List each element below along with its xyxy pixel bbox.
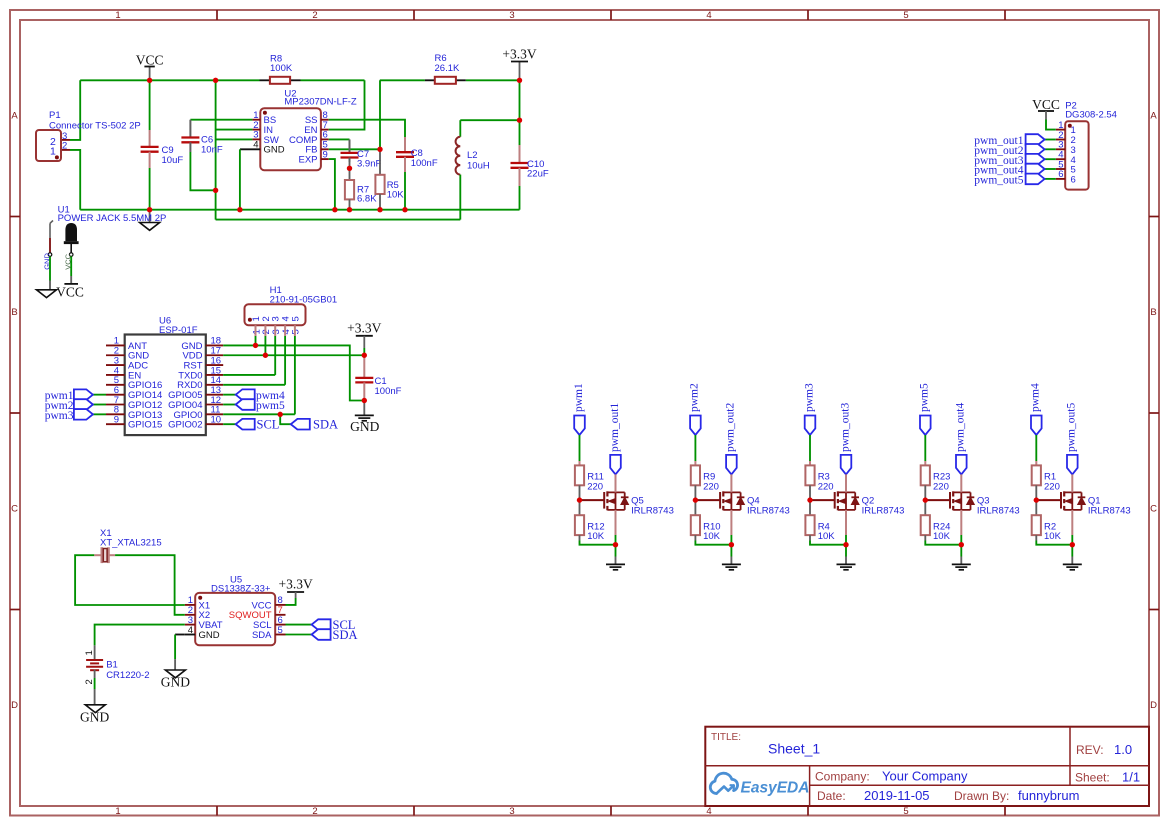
P2 pin 5	[1056, 168, 1065, 170]
svg-text:+3.3V: +3.3V	[502, 47, 536, 62]
junction	[807, 497, 812, 502]
U2 pin 1 BS	[252, 119, 260, 121]
svg-text:pwm_out4: pwm_out4	[955, 403, 967, 452]
wire drain Q1	[1071, 474, 1073, 492]
U6 pin 9 GPIO15	[106, 423, 125, 425]
P2 pin 2	[1056, 139, 1065, 141]
wire gate node Q2	[809, 485, 811, 515]
wire H1 pin3 to TXD0	[274, 336, 276, 375]
svg-text:2: 2	[62, 140, 67, 151]
U6 pin 18 GND	[206, 344, 223, 346]
wire source Q3 to ground	[960, 510, 962, 535]
svg-text:IRLR8743: IRLR8743	[631, 506, 674, 517]
wire drain Q5	[615, 474, 617, 492]
junction	[843, 542, 848, 547]
wire U2 GND pin4 down to bus	[239, 149, 241, 209]
wire GPIO0 pin11 run	[223, 413, 295, 415]
U6 pin 7 GPIO12	[106, 404, 125, 406]
svg-text:5: 5	[903, 10, 908, 21]
svg-text:C: C	[11, 504, 18, 515]
svg-text:6.8K: 6.8K	[357, 194, 377, 205]
svg-text:CR1220-2: CR1220-2	[106, 670, 149, 681]
net port SCL at U5	[286, 624, 312, 626]
svg-text:22uF: 22uF	[527, 169, 549, 180]
U2 pin 6 COMP	[321, 138, 329, 140]
junction	[263, 353, 268, 358]
U2 pin 2 IN	[252, 129, 260, 131]
svg-text:GND: GND	[161, 675, 190, 690]
svg-text:Sheet:: Sheet:	[1075, 771, 1110, 785]
junction	[377, 147, 382, 152]
wire FB top segment	[380, 79, 425, 81]
U5 pin 3 VBAT	[185, 624, 195, 626]
U2 pin 8 SS	[321, 119, 329, 121]
svg-text:5: 5	[290, 316, 301, 321]
svg-text:pwm5: pwm5	[919, 383, 931, 412]
svg-text:pwm3: pwm3	[45, 410, 74, 422]
resistor R9 220	[691, 465, 700, 485]
net port SDA at U6	[291, 419, 310, 430]
wire L2 top to output node	[460, 119, 519, 121]
wire H1 pin2 to VDD net	[264, 336, 266, 355]
svg-text:3.9nF: 3.9nF	[357, 159, 381, 170]
svg-text:10K: 10K	[703, 531, 721, 542]
svg-text:1: 1	[84, 650, 95, 655]
Q2 body diode	[854, 492, 856, 510]
P2 pin 1	[1056, 129, 1065, 131]
svg-text:6: 6	[1071, 175, 1076, 186]
svg-text:pwm_out3: pwm_out3	[839, 403, 851, 452]
connector P1	[36, 130, 61, 161]
wire drain Q2	[845, 474, 847, 492]
svg-text:B1: B1	[106, 660, 118, 671]
svg-text:SDA: SDA	[313, 418, 338, 432]
svg-text:pwm3: pwm3	[803, 383, 815, 412]
svg-text:26.1K: 26.1K	[435, 63, 460, 74]
junction	[959, 542, 964, 547]
svg-text:10K: 10K	[1044, 531, 1062, 542]
svg-text:EasyEDA: EasyEDA	[741, 780, 810, 797]
svg-text:Your Company: Your Company	[882, 769, 968, 784]
resistor R10 10K	[691, 515, 700, 535]
wire U2 EN pin7 to rail	[329, 80, 365, 129]
ground at Q1	[1063, 563, 1082, 565]
svg-text:POWER JACK 5.5MM 2P: POWER JACK 5.5MM 2P	[58, 213, 167, 224]
wire source Q1 to ground	[1071, 510, 1073, 535]
svg-text:4: 4	[706, 10, 711, 21]
net port pwm_out5 at P2	[1045, 178, 1056, 180]
junction	[729, 542, 734, 547]
wire source Q5 to ground	[615, 510, 617, 535]
resistor R3 220	[805, 465, 814, 485]
svg-text:IRLR8743: IRLR8743	[747, 506, 790, 517]
U5 pin 2 X2	[185, 614, 195, 616]
svg-text:10K: 10K	[933, 531, 951, 542]
junction	[147, 78, 152, 83]
svg-text:funnybrum: funnybrum	[1018, 788, 1079, 803]
capacitor C8	[404, 137, 406, 152]
wire VCC to P2 pin1	[1046, 120, 1056, 130]
svg-text:1: 1	[115, 10, 120, 21]
U1 pin 1 sleeve	[49, 238, 51, 253]
svg-text:B: B	[11, 307, 17, 318]
wire X1 pin1 loop to U5 X1	[75, 555, 185, 605]
U6 pin 5 GPIO16	[106, 384, 125, 386]
resistor R24 10K	[921, 515, 930, 535]
svg-text:6: 6	[1058, 169, 1063, 180]
transistor Q2 IRLR8743	[810, 499, 835, 501]
svg-text:GND: GND	[80, 710, 109, 725]
svg-text:MP2307DN-LF-Z: MP2307DN-LF-Z	[284, 96, 357, 107]
svg-text:3: 3	[509, 806, 514, 817]
wire TXD0 pin15 run	[223, 374, 275, 376]
junction	[332, 207, 337, 212]
svg-text:pwm2: pwm2	[689, 383, 701, 412]
title block border	[705, 727, 1149, 806]
net port pwm_out2 at P2	[1045, 148, 1056, 150]
junction	[347, 166, 352, 171]
net port pwm2 at U6	[93, 404, 106, 406]
net port pwm5 at U6	[223, 404, 236, 406]
wire R10 to source node	[694, 535, 696, 540]
Q3 body diode	[970, 492, 972, 510]
capacitor C6	[190, 119, 252, 121]
capacitor C1	[363, 355, 365, 378]
P2 pin 3	[1056, 148, 1065, 150]
svg-text:Date:: Date:	[817, 789, 846, 803]
svg-text:2: 2	[312, 806, 317, 817]
svg-text:A: A	[1150, 111, 1157, 122]
ground at Q5	[606, 563, 625, 565]
svg-text:220: 220	[818, 481, 834, 492]
svg-text:Connector TS-502 2P: Connector TS-502 2P	[49, 121, 141, 132]
svg-text:220: 220	[933, 481, 949, 492]
svg-text:Drawn By:: Drawn By:	[954, 789, 1009, 803]
net port pwm4 at U6	[223, 394, 236, 396]
svg-text:2: 2	[312, 10, 317, 21]
junction	[517, 118, 522, 123]
svg-text:GND: GND	[264, 145, 285, 156]
transistor Q4 IRLR8743	[695, 499, 720, 501]
svg-text:+3.3V: +3.3V	[278, 577, 312, 592]
ground at Q4	[722, 563, 741, 565]
svg-text:1: 1	[50, 146, 56, 158]
wire SW bottom run to L2	[216, 219, 461, 221]
net port pwm3 at U6	[93, 413, 106, 415]
U2 pin 7 EN	[321, 129, 329, 131]
svg-text:pwm_out5: pwm_out5	[1066, 403, 1078, 452]
svg-text:pwm_out5: pwm_out5	[974, 175, 1023, 187]
U6 pin 13 GPIO05	[206, 394, 223, 396]
U5 pin 4 GND	[185, 634, 195, 636]
EasyEDA logo	[710, 773, 737, 793]
ground at Q2	[837, 563, 856, 565]
svg-text:pwm4: pwm4	[1030, 383, 1042, 412]
U6 pin 16 RST	[206, 364, 223, 366]
svg-text:10K: 10K	[818, 531, 836, 542]
wire gate node Q3	[924, 485, 926, 515]
junction	[1034, 497, 1039, 502]
wire pwm2 to R9	[694, 435, 696, 461]
ruler tick marks	[216, 10, 218, 20]
wire FB vertical to R6 segment	[379, 80, 381, 149]
svg-text:DG308-2.54: DG308-2.54	[1065, 110, 1117, 121]
junction	[693, 497, 698, 502]
resistor R4 10K	[805, 515, 814, 535]
svg-text:Company:: Company:	[815, 770, 870, 784]
wire gate node Q1	[1035, 485, 1037, 515]
wire R12 to source node	[579, 535, 581, 540]
net port pwm_out3 at P2	[1045, 158, 1056, 160]
Q4 body diode	[740, 492, 742, 510]
battery B1 CR1220-2	[94, 645, 96, 659]
U6 pin 4 EN	[106, 374, 125, 376]
net port pwm_out1 at P2	[1045, 139, 1056, 141]
wire gate node Q5	[579, 485, 581, 515]
svg-text:+3.3V: +3.3V	[347, 320, 381, 335]
wire H1 pin1 to GND net	[255, 336, 257, 345]
svg-text:IRLR8743: IRLR8743	[977, 506, 1020, 517]
wire U2 FB pin5	[329, 148, 380, 150]
title block inner lines	[705, 765, 1149, 767]
wire source Q2 to ground	[845, 510, 847, 535]
wire source Q4 to ground	[730, 510, 732, 535]
U5 pin 7 SQWOUT	[275, 614, 285, 616]
svg-text:4: 4	[253, 140, 258, 151]
svg-text:IRLR8743: IRLR8743	[1088, 506, 1131, 517]
U2 pin 4 GND	[240, 148, 260, 150]
capacitor C9	[149, 80, 151, 130]
U6 pin 17 VDD	[206, 354, 223, 356]
resistor R1 220	[1032, 465, 1041, 485]
ground GND below B1	[85, 705, 105, 713]
U6 pin 14 RXD0	[206, 384, 223, 386]
resistor R12 10K	[575, 515, 584, 535]
U2 pin 5 FB	[321, 148, 329, 150]
wire drain Q4	[730, 474, 732, 492]
wire pwm3 to R3	[809, 435, 811, 461]
wire U2 pin3 SW stub wire	[216, 138, 253, 140]
svg-text:10uH: 10uH	[467, 161, 490, 172]
ground at Q3	[952, 563, 971, 565]
capacitor C7	[349, 139, 351, 153]
svg-text:ESP-01F: ESP-01F	[159, 325, 198, 336]
svg-text:VCC: VCC	[136, 52, 164, 67]
ground GND below U5	[165, 670, 185, 678]
junction	[237, 207, 242, 212]
U1 pin1 wire to ground	[49, 256, 51, 280]
svg-text:VCC: VCC	[56, 284, 84, 299]
wire U2 COMP pin6 to C7	[329, 138, 350, 140]
net flag VCC at rail	[149, 67, 151, 81]
transistor Q5 IRLR8743	[580, 499, 605, 501]
svg-text:A: A	[11, 111, 18, 122]
resistor R23 220	[921, 465, 930, 485]
P2 pin 6	[1056, 178, 1065, 180]
wire R2 to source node	[1035, 535, 1037, 540]
connector P2 DG308-2.54	[1065, 121, 1088, 189]
svg-text:9: 9	[114, 415, 119, 426]
svg-text:pwm_out1: pwm_out1	[609, 403, 621, 452]
wire H1 pin4 to RXD0	[284, 336, 286, 385]
wire X1 pin2 to U5 X2	[115, 555, 185, 615]
U5 pin 6 SCL	[275, 624, 285, 626]
wire U5 GND pin4 to ground	[175, 634, 185, 636]
wire pwm1 to R11	[579, 435, 581, 461]
capacitor C10	[519, 120, 521, 145]
svg-text:pwm5: pwm5	[256, 400, 285, 412]
junction	[1070, 542, 1075, 547]
junction	[613, 542, 618, 547]
wire U2 SS pin8 to C8	[329, 120, 405, 137]
wire IN/SW vertical	[215, 80, 217, 219]
resistor R7	[349, 162, 351, 180]
resistor R11 220	[575, 465, 584, 485]
svg-text:5: 5	[903, 806, 908, 817]
svg-text:4: 4	[188, 625, 193, 636]
svg-text:5: 5	[291, 329, 302, 334]
wire U2 pin2 IN stub wire	[216, 129, 253, 131]
wire U2 EXP pin9 to bus	[329, 159, 335, 210]
svg-text:220: 220	[703, 481, 719, 492]
U6 pin 2 GND	[106, 354, 125, 356]
svg-text:C: C	[1150, 504, 1157, 515]
svg-text:9: 9	[323, 149, 328, 160]
svg-text:GPIO02: GPIO02	[168, 420, 202, 431]
net port SCL at U6	[223, 423, 236, 425]
svg-text:GPIO15: GPIO15	[128, 420, 162, 431]
svg-text:10: 10	[211, 415, 222, 426]
svg-text:10nF: 10nF	[201, 145, 223, 156]
U6 pin 3 ADC	[106, 364, 125, 366]
svg-text:1.0: 1.0	[1114, 742, 1132, 757]
resistor R8	[260, 79, 270, 81]
ground GND at C1	[363, 401, 365, 416]
U2 pin 9 EXP	[321, 158, 329, 160]
transistor Q3 IRLR8743	[925, 499, 950, 501]
svg-text:2: 2	[84, 679, 95, 684]
IC U6 ESP-01F	[125, 335, 206, 436]
net port SDA at U5	[286, 634, 312, 636]
svg-text:DS1338Z-33+: DS1338Z-33+	[211, 584, 271, 595]
wire R4 to source node	[809, 535, 811, 540]
svg-text:210-91-05GB01: 210-91-05GB01	[270, 294, 338, 305]
svg-text:10K: 10K	[387, 190, 405, 201]
junction	[253, 343, 258, 348]
junction	[923, 497, 928, 502]
U6 pin 12 GPIO04	[206, 404, 223, 406]
wire R6 to +3.3V	[466, 79, 520, 81]
U6 pin 11 GPIO0	[206, 413, 223, 415]
svg-text:XT_XTAL3215: XT_XTAL3215	[100, 537, 162, 548]
svg-text:2019-11-05: 2019-11-05	[864, 788, 930, 803]
wire SDA branch	[280, 414, 291, 424]
wire pwm5 to R23	[924, 435, 926, 461]
svg-text:GND: GND	[199, 630, 220, 641]
svg-text:220: 220	[1044, 481, 1060, 492]
IC U5 DS1338Z-33+	[195, 593, 275, 645]
svg-text:100nF: 100nF	[375, 386, 402, 397]
junction	[278, 412, 283, 417]
svg-text:IRLR8743: IRLR8743	[862, 506, 905, 517]
wire GND bus	[80, 209, 519, 211]
resistor R6	[425, 79, 435, 81]
U6 pin 8 GPIO13	[106, 413, 125, 415]
svg-text:1: 1	[115, 806, 120, 817]
svg-text:1/1: 1/1	[1122, 770, 1140, 785]
wire VDD pin17 run	[223, 354, 364, 356]
svg-text:EXP: EXP	[298, 155, 317, 166]
svg-text:D: D	[11, 700, 18, 711]
junction	[517, 78, 522, 83]
svg-text:P1: P1	[49, 110, 61, 121]
U6 pin 1 ANT	[106, 344, 125, 346]
wire gate node Q4	[694, 485, 696, 515]
svg-text:VCC: VCC	[1032, 97, 1060, 112]
junction	[362, 353, 367, 358]
resistor R2 10K	[1032, 515, 1041, 535]
svg-text:4: 4	[706, 806, 711, 817]
junction	[402, 207, 407, 212]
U6 pin 10 GPIO02	[206, 423, 223, 425]
svg-text:REV:: REV:	[1076, 743, 1104, 757]
wire RXD0 pin14 run	[223, 384, 285, 386]
wire H1 pin5 to GPIO0	[294, 336, 296, 414]
inductor L2	[459, 120, 461, 137]
svg-text:100nF: 100nF	[411, 158, 438, 169]
net port pwm_out4 at P2	[1045, 168, 1056, 170]
wire pwm4 to R1	[1035, 435, 1037, 461]
wire P1 pin3 to VCC rail	[61, 139, 70, 141]
U6 pin 6 GPIO14	[106, 394, 125, 396]
U5 pin 5 SDA	[275, 634, 285, 636]
svg-text:pwm_out2: pwm_out2	[725, 403, 737, 452]
junction	[213, 78, 218, 83]
svg-text:Sheet_1: Sheet_1	[768, 741, 820, 757]
net flag +3.3V at output	[519, 62, 521, 81]
header H1 210-91-05GB01	[245, 304, 306, 325]
junction	[377, 207, 382, 212]
wire GND pin18 run	[223, 345, 364, 400]
svg-text:L2: L2	[467, 150, 478, 161]
U2 pin 3 SW	[252, 138, 260, 140]
svg-text:220: 220	[587, 481, 603, 492]
svg-text:10K: 10K	[587, 531, 605, 542]
Q1 body diode	[1081, 492, 1083, 510]
ground symbol at GND bus	[149, 210, 151, 223]
wire drain Q3	[960, 474, 962, 492]
U6 pin 15 TXD0	[206, 374, 223, 376]
Q5 body diode	[624, 492, 626, 510]
transistor Q1 IRLR8743	[1036, 499, 1061, 501]
wire P1 pin2 to GND bus	[61, 149, 70, 151]
U5 pin 1 X1	[185, 604, 195, 606]
junction	[347, 207, 352, 212]
U5 pin 8 VCC	[275, 604, 285, 606]
resistor R5	[379, 149, 381, 175]
svg-text:5: 5	[278, 625, 283, 636]
svg-text:D: D	[1150, 700, 1157, 711]
U1 pin2 wire to VCC flag	[70, 256, 72, 276]
svg-text:100K: 100K	[270, 63, 293, 74]
wire R24 to source node	[924, 535, 926, 540]
svg-text:SCL: SCL	[257, 418, 280, 432]
svg-text:10uF: 10uF	[162, 155, 184, 166]
junction	[147, 207, 152, 212]
IC U2 MP2307DN-LF-Z	[260, 108, 321, 170]
junction	[213, 188, 218, 193]
svg-text:SDA: SDA	[333, 628, 358, 642]
